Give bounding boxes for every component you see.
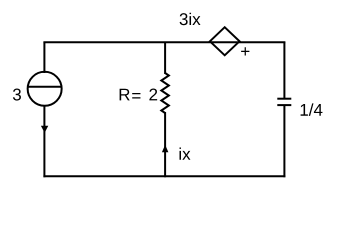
current source I1 (3 A), circle with bar — [28, 72, 62, 106]
polarity mark + — [241, 47, 249, 55]
wire: left branch lower segment — [43, 106, 45, 177]
wire: right branch upper segment — [283, 42, 285, 98]
wire: right branch lower segment — [283, 106, 285, 178]
wire: bottom net — [43, 175, 285, 177]
label: = — [132, 93, 140, 98]
wire: middle branch lower segment — [164, 112, 166, 177]
capacitor C (two plates) — [277, 99, 291, 105]
resistor R (zigzag) — [161, 73, 169, 113]
arrowhead: source current direction (down) — [41, 126, 48, 133]
label: 2 (resistor value) — [149, 89, 157, 101]
label: 1/4 (capacitor value) — [301, 103, 323, 115]
wire: left branch upper segment — [43, 42, 45, 73]
label: 3 (source value) — [13, 89, 21, 101]
dependent source 3ix (diamond) — [210, 27, 240, 55]
wire: middle branch upper segment — [164, 42, 166, 74]
wire: top net — [43, 41, 285, 43]
label: 3ix (dependent source value) — [180, 13, 201, 25]
label: ix (current name) — [180, 147, 191, 159]
arrowhead: ix current direction (up) — [162, 145, 169, 153]
label: R (resistor name) — [120, 89, 130, 101]
